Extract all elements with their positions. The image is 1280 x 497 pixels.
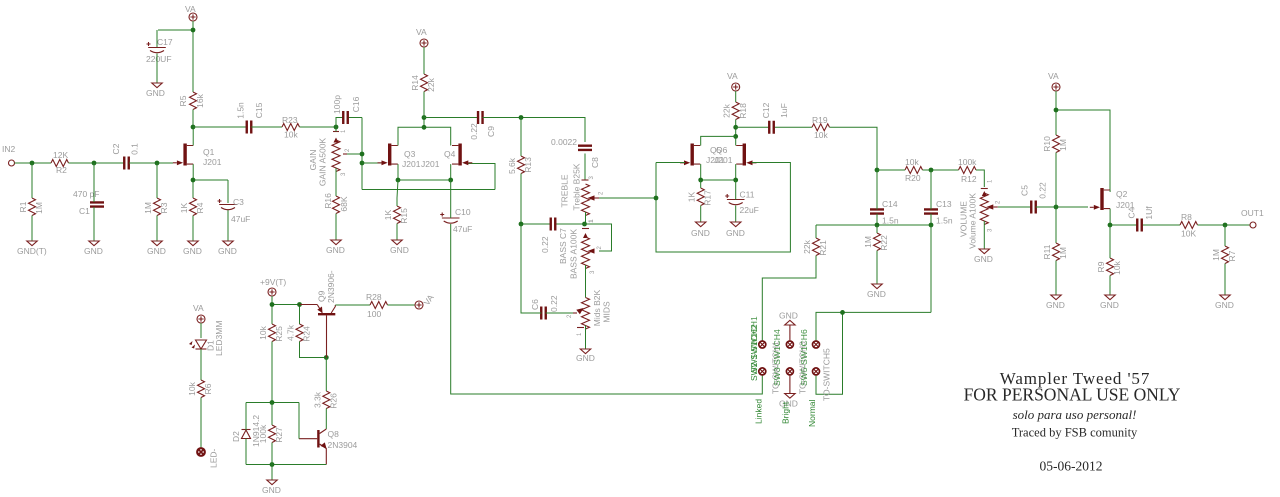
wire mids to ground	[585, 326, 587, 350]
ground below C3	[218, 241, 237, 256]
resistor R4 1K	[179, 198, 205, 216]
wire VA to C17/R5 node	[157, 21, 193, 92]
svg-text:C3: C3	[233, 197, 244, 207]
svg-text:Q1: Q1	[203, 147, 215, 157]
transistor Q9 2N3906	[300, 270, 337, 357]
junction treble bottom	[582, 222, 587, 227]
junction Q4 source	[448, 178, 453, 183]
wire gain wiper	[347, 153, 362, 155]
svg-text:VA: VA	[193, 303, 204, 313]
ground below mids	[576, 349, 595, 363]
wire Q2 drain bend	[1109, 190, 1111, 192]
junction treble wiper node	[654, 196, 659, 201]
svg-text:J201: J201	[421, 159, 440, 169]
junction gain pot top	[334, 125, 339, 130]
ground below C11	[726, 222, 745, 238]
svg-text:5.6k: 5.6k	[507, 157, 517, 174]
svg-text:0.22: 0.22	[540, 236, 550, 253]
wire R11 to ground	[1055, 261, 1057, 296]
svg-text:GND: GND	[326, 245, 345, 255]
junction VA node	[1054, 108, 1059, 113]
svg-text:0.22: 0.22	[1038, 182, 1048, 199]
supply VA (switched)	[415, 292, 436, 309]
wire Q3/Q4 drain bridge	[398, 118, 451, 146]
wire bottom tone rail	[816, 224, 931, 226]
wire R1	[31, 163, 33, 241]
wire C15 to R23	[251, 126, 282, 128]
wire treble bottom	[585, 212, 587, 224]
wire Q5 gate	[656, 162, 685, 164]
junction Q1 source	[191, 178, 196, 183]
gain pot R16 GAIN A500K	[308, 129, 351, 186]
svg-text:VA: VA	[727, 71, 738, 81]
resistor R16 68K	[323, 193, 349, 214]
junction R20/C13 node	[929, 168, 934, 173]
resistor R6 10k	[187, 380, 213, 398]
svg-text:C1: C1	[79, 206, 90, 216]
resistor R1 1M	[18, 198, 44, 216]
junction switch feed	[840, 310, 845, 315]
svg-text:R17: R17	[703, 190, 713, 206]
svg-text:0.22: 0.22	[469, 123, 479, 140]
wire R10 to gate node to R11	[1055, 153, 1057, 244]
svg-text:R25: R25	[274, 326, 284, 342]
svg-text:C15: C15	[254, 102, 264, 118]
wire R22 to ground	[876, 225, 878, 284]
svg-text:C8: C8	[590, 157, 600, 168]
wire R6 to LED- pad	[200, 398, 202, 449]
svg-text:22uF: 22uF	[740, 205, 759, 215]
wire R26 to Q8 collector	[325, 358, 327, 430]
svg-text:solo para uso personal!: solo para uso personal!	[1013, 407, 1137, 422]
svg-text:R14: R14	[410, 75, 420, 91]
svg-text:Normal: Normal	[807, 399, 817, 427]
junction Q1 drain node	[191, 125, 196, 130]
capacitor C3 47uF	[218, 197, 251, 224]
wire R3	[156, 163, 158, 241]
ground below R16	[326, 240, 345, 255]
capacitor C1 470 pF	[73, 189, 104, 216]
LED D1 LED3MM	[189, 321, 224, 356]
wire C14	[876, 170, 878, 225]
svg-text:100k: 100k	[958, 157, 977, 167]
svg-text:10k: 10k	[1112, 260, 1122, 274]
svg-text:Q2: Q2	[1116, 189, 1128, 199]
wire C6 to mids wiper	[546, 312, 573, 314]
wire main line to C9	[424, 117, 478, 119]
svg-text:1M: 1M	[863, 236, 873, 248]
resistor R27 100k	[258, 424, 284, 443]
wire LED to R6	[200, 349, 202, 380]
junction R18/C12 node	[733, 125, 738, 130]
wire VA to R18 to drain node	[735, 91, 737, 146]
svg-text:10k: 10k	[284, 130, 298, 140]
wire R9 to ground	[1109, 225, 1111, 295]
ground below R7	[1215, 295, 1234, 310]
capacitor C17 220UF	[146, 37, 173, 64]
svg-text:C11: C11	[740, 190, 755, 200]
svg-text:TREBLE: TREBLE	[560, 174, 570, 207]
junction +9V/R25	[270, 302, 275, 307]
svg-text:J201: J201	[714, 155, 733, 165]
resistor R12 100k	[958, 157, 977, 184]
svg-text:C14: C14	[882, 199, 898, 209]
svg-text:R3: R3	[159, 202, 169, 213]
svg-text:GND: GND	[726, 228, 745, 238]
svg-text:1K: 1K	[179, 202, 189, 213]
svg-text:BASS A100K: BASS A100K	[569, 229, 579, 279]
junction VA node	[191, 28, 196, 33]
junction C1 tap	[92, 161, 97, 166]
svg-text:C2: C2	[111, 143, 121, 154]
capacitor C15 1.5n	[236, 102, 265, 134]
mids pot Mids B2K	[567, 289, 612, 336]
ground below switch column 2	[779, 375, 798, 409]
svg-text:Traced by FSB comunity: Traced by FSB comunity	[1012, 426, 1138, 440]
svg-text:R1: R1	[18, 201, 28, 212]
capacitor C13 1.5n	[924, 199, 953, 226]
svg-text:R26: R26	[328, 393, 338, 409]
resistor R10 1M	[1042, 135, 1068, 153]
svg-text:SW1-SW1CH1: SW1-SW1CH1	[749, 316, 759, 373]
svg-text:1M: 1M	[1058, 247, 1068, 259]
wire Q3/Q4 sources	[398, 164, 451, 180]
diode D2 1N914.2	[231, 415, 261, 447]
resistor R22 1M	[863, 233, 889, 251]
junction main line tap	[422, 115, 427, 120]
wire tone rail C7	[521, 223, 585, 225]
svg-text:220UF: 220UF	[146, 54, 172, 64]
svg-text:22k: 22k	[722, 103, 732, 117]
resistor R25 10k	[258, 324, 284, 342]
svg-text:1uF: 1uF	[779, 103, 789, 118]
svg-text:100k: 100k	[258, 424, 268, 443]
svg-text:GND: GND	[147, 246, 166, 256]
junction C14/R22	[875, 223, 880, 228]
wire R27	[271, 403, 273, 481]
wire R20 rail	[877, 169, 959, 171]
transistor Q1 J201	[173, 144, 222, 168]
junction Q6 source	[733, 178, 738, 183]
wire C12 line	[736, 126, 812, 128]
capacitor C6 0.22	[530, 295, 559, 319]
resistor R13 5.6k	[507, 156, 533, 174]
wire R13	[520, 118, 522, 225]
junction R13 tap	[519, 115, 524, 120]
svg-text:47uF: 47uF	[453, 224, 472, 234]
svg-text:1K: 1K	[383, 209, 393, 220]
wire R12 to volume pot	[976, 170, 984, 187]
junction Q5 source	[698, 178, 703, 183]
junction wiper node	[360, 152, 365, 157]
svg-text:68K: 68K	[339, 196, 349, 211]
capacitor C16 100p	[332, 95, 361, 124]
ground below R4	[183, 241, 202, 256]
junction R7 tap	[1223, 223, 1228, 228]
svg-text:BASS C7: BASS C7	[558, 228, 568, 264]
junction R1 tap	[30, 161, 35, 166]
svg-text:IN2: IN2	[2, 144, 16, 154]
resistor R26 3.3k	[312, 391, 338, 409]
wire VA to R14 to main line	[423, 47, 425, 118]
wire C13 column to switch row	[816, 225, 931, 394]
svg-text:GND: GND	[84, 246, 103, 256]
resistor R21 22k	[802, 238, 828, 256]
svg-text:100: 100	[367, 309, 381, 319]
svg-text:R15: R15	[399, 208, 409, 224]
svg-text:GAIN A500K: GAIN A500K	[318, 138, 328, 187]
wire +9V rail	[272, 296, 300, 324]
svg-text:R2: R2	[56, 165, 67, 175]
svg-text:1.5n: 1.5n	[936, 216, 953, 226]
wire C10 bottom long run to switch SW1	[451, 224, 763, 394]
resistor R3 1M	[143, 198, 169, 216]
svg-text:D2: D2	[231, 431, 241, 442]
ground below R15	[390, 240, 409, 255]
wire Q1 source to R4/C3	[193, 164, 228, 241]
supply VA (R14 branch)	[416, 27, 428, 47]
wire C11 to ground	[735, 180, 737, 222]
junction C13 column	[929, 223, 934, 228]
ground below R9	[1100, 295, 1119, 310]
treble pot Treble B250K	[560, 163, 605, 223]
svg-text:C16: C16	[351, 96, 361, 112]
resistor R19 10k	[812, 115, 830, 140]
resistor R11 1M	[1042, 243, 1068, 261]
svg-text:VA: VA	[1048, 71, 1059, 81]
svg-text:0.0022: 0.0022	[551, 137, 577, 147]
wire C17 to ground	[156, 54, 158, 84]
capacitor C4 1Uf	[1127, 206, 1155, 232]
wire R24 to Q9 base node	[300, 342, 327, 358]
svg-text:10k: 10k	[905, 157, 919, 167]
wire R28 to VA	[388, 304, 416, 306]
svg-text:GND: GND	[1046, 300, 1065, 310]
svg-text:R12: R12	[961, 174, 977, 184]
svg-text:R11: R11	[1042, 244, 1052, 259]
wire IN2 to R2	[15, 162, 52, 164]
svg-text:GAIN: GAIN	[308, 150, 318, 171]
svg-text:SW3-SW1CH4: SW3-SW1CH4	[772, 329, 782, 386]
svg-text:47uF: 47uF	[231, 214, 250, 224]
svg-text:0.22: 0.22	[549, 295, 559, 312]
connector OUT1	[1241, 208, 1264, 228]
svg-text:Bright: Bright	[781, 401, 791, 424]
resistor R28 100	[366, 292, 388, 319]
svg-text:10K: 10K	[1181, 229, 1196, 239]
svg-text:Q3: Q3	[404, 149, 416, 159]
transistor Q8 2N3904	[299, 429, 358, 465]
resistor R14 22k	[410, 74, 436, 92]
svg-text:R22: R22	[879, 235, 889, 251]
resistor R20 10k	[905, 157, 923, 183]
svg-text:Linked: Linked	[754, 399, 764, 424]
svg-text:2N3906-: 2N3906-	[326, 270, 336, 303]
switch SW1/SW2 pads column 1	[749, 316, 766, 381]
junction C6/R13 node	[519, 222, 524, 227]
svg-text:Q4: Q4	[444, 149, 456, 159]
svg-text:LED3MM: LED3MM	[214, 321, 224, 356]
svg-text:C5: C5	[1020, 185, 1030, 196]
resistor R23 10k	[282, 115, 300, 140]
svg-text:R28: R28	[366, 292, 382, 302]
junction Q9 base node	[324, 355, 329, 360]
svg-text:1Uf: 1Uf	[1144, 206, 1154, 220]
wire C2 to Q1 gate	[129, 162, 173, 164]
resistor R24 4.7k	[286, 324, 312, 342]
supply VA (output stage)	[1048, 71, 1060, 91]
volume pot Volume A100K	[959, 179, 1002, 249]
junction D2 bottom	[270, 462, 275, 467]
svg-text:+9V(T): +9V(T)	[260, 277, 286, 287]
switch SW5/SW6 pads column 3	[813, 341, 820, 375]
svg-text:C12: C12	[761, 102, 771, 118]
svg-text:GND: GND	[867, 289, 886, 299]
svg-text:R10: R10	[1042, 136, 1052, 152]
svg-text:4.7k: 4.7k	[286, 324, 296, 341]
svg-text:12K: 12K	[53, 150, 68, 160]
transistor Q5 J201	[680, 144, 733, 166]
svg-text:GND: GND	[262, 485, 281, 495]
svg-text:GND: GND	[1215, 300, 1234, 310]
wire R2 to C2	[69, 162, 125, 164]
svg-text:R27: R27	[274, 427, 284, 443]
svg-text:Q6: Q6	[716, 145, 728, 155]
junction drain bridge node	[733, 134, 738, 139]
supply VA (Q5/Q6 stage)	[727, 71, 740, 91]
svg-text:3.3k: 3.3k	[312, 391, 322, 408]
svg-text:J201: J201	[203, 157, 222, 167]
svg-text:C10: C10	[455, 207, 471, 217]
capacitor C8 0.0022	[551, 137, 600, 168]
junction +9V/R24	[297, 302, 302, 307]
svg-text:FOR PERSONAL USE ONLY: FOR PERSONAL USE ONLY	[964, 385, 1181, 405]
svg-text:SW5-SW1CH6: SW5-SW1CH6	[799, 329, 809, 386]
wire R25 to D2 node	[271, 342, 273, 403]
wire D2/R27 box	[246, 403, 326, 465]
svg-text:2N3904: 2N3904	[328, 440, 358, 450]
supply +9V(T)	[260, 277, 286, 296]
capacitor C11 22uF	[725, 190, 759, 216]
svg-text:VA: VA	[416, 27, 427, 37]
junction D2 top	[270, 400, 275, 405]
wire C6 left leg	[521, 224, 541, 313]
wire C9 to treble cap corner	[483, 118, 586, 143]
junction Q3 source	[396, 178, 401, 183]
capacitor C2 0.1	[111, 143, 140, 170]
svg-text:LED-: LED-	[209, 448, 219, 468]
svg-text:GND: GND	[974, 254, 993, 264]
svg-text:R5: R5	[178, 95, 188, 106]
pad LED-	[197, 448, 218, 468]
wire C13	[930, 170, 932, 225]
svg-text:10k: 10k	[258, 325, 268, 339]
transistor Q4 J201 (mirrored)	[421, 144, 472, 170]
svg-text:GND: GND	[183, 246, 202, 256]
wire gate box Q3/Q4	[362, 163, 495, 190]
svg-text:10k: 10k	[814, 130, 828, 140]
capacitor C7 0.22	[540, 218, 568, 265]
svg-text:Mids B2K: Mids B2K	[592, 289, 602, 326]
capacitor C5 0.22	[1020, 182, 1048, 214]
svg-text:16k: 16k	[195, 93, 205, 107]
svg-text:C9: C9	[486, 126, 496, 137]
wire bass to mids	[585, 265, 587, 298]
wire C10 top	[450, 180, 452, 218]
resistor R8 10K	[1180, 212, 1198, 239]
wire R5 to Q1 drain node	[192, 110, 194, 128]
junction drain bridge	[422, 125, 427, 130]
wire R7 to ground	[1224, 225, 1226, 295]
svg-text:VA: VA	[185, 4, 196, 14]
svg-text:R23: R23	[282, 115, 298, 125]
resistor R9 10k	[1096, 258, 1122, 276]
transistor Q6 J201 (mirrored)	[736, 144, 756, 166]
capacitor C10 47uF	[440, 207, 472, 234]
svg-text:470 pF: 470 pF	[73, 189, 99, 199]
wire bass wiper loop	[585, 224, 612, 251]
svg-text:1.5n: 1.5n	[882, 216, 899, 226]
svg-text:1M: 1M	[1211, 249, 1221, 261]
svg-text:TO-SWITCH5: TO-SWITCH5	[822, 348, 832, 401]
wire Q5/Q6 sources	[701, 164, 736, 180]
svg-text:GND: GND	[779, 311, 798, 321]
svg-text:Q8: Q8	[328, 429, 340, 439]
supply VA (input stage)	[185, 4, 197, 21]
svg-text:C13: C13	[936, 199, 952, 209]
wire Q5/Q6 drain bridge	[701, 136, 736, 145]
svg-text:J201: J201	[402, 159, 421, 169]
svg-text:C4: C4	[1127, 207, 1137, 218]
svg-text:1M: 1M	[143, 202, 153, 214]
junction Q2 source	[1108, 223, 1113, 228]
wire Q1 drain up	[192, 129, 194, 146]
ground below R22	[867, 284, 886, 299]
svg-text:R9: R9	[1096, 261, 1106, 272]
wire R23 to gain pot node	[300, 126, 337, 128]
svg-text:100p: 100p	[332, 95, 342, 114]
ground below R3	[147, 241, 166, 256]
junction Q3 gate node	[360, 161, 365, 166]
svg-text:R7: R7	[1227, 250, 1237, 261]
transistor Q2 J201	[1090, 188, 1135, 210]
svg-text:05-06-2012: 05-06-2012	[1040, 459, 1103, 474]
wire R17 to ground	[700, 180, 702, 222]
ground above switch column 2	[779, 311, 798, 342]
svg-text:R8: R8	[1181, 212, 1192, 222]
resistor R17 1K	[687, 188, 713, 206]
wire R8 to OUT1	[1198, 224, 1251, 226]
svg-text:Treble B25K: Treble B25K	[572, 163, 582, 210]
wire Q2 source to output rail	[1110, 209, 1180, 225]
svg-text:GND(T): GND(T)	[17, 246, 47, 256]
junction R3 tap	[155, 161, 160, 166]
svg-text:Volume A100K: Volume A100K	[968, 193, 978, 249]
switch label TO-SWITCH3	[798, 329, 810, 394]
resistor R7 1M	[1211, 246, 1237, 264]
resistor R18 22k	[722, 102, 749, 120]
svg-text:Q9: Q9	[317, 290, 327, 302]
resistor R15 1K	[383, 206, 409, 224]
svg-text:22k: 22k	[802, 239, 812, 253]
ground below R17	[691, 222, 710, 238]
svg-text:R13: R13	[523, 157, 533, 173]
wire R19 to R20 corner	[830, 127, 878, 170]
svg-text:10k: 10k	[187, 381, 197, 395]
svg-text:R19: R19	[812, 115, 828, 125]
svg-text:R16: R16	[323, 193, 333, 209]
svg-text:MIDS: MIDS	[602, 301, 612, 323]
